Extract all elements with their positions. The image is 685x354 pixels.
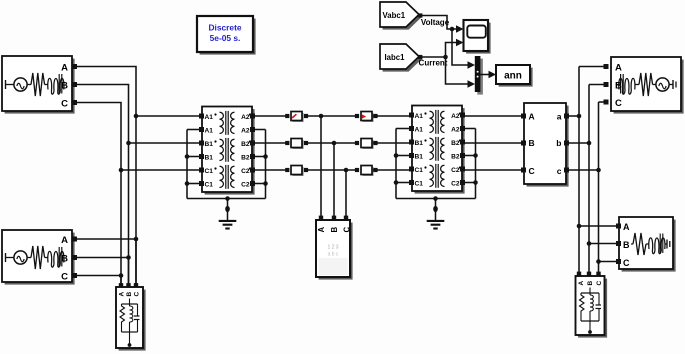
three-phase parallel RLC load 1 (bottom-left) <box>116 287 146 351</box>
wire: T1 bottom neutral to ground <box>187 198 266 200</box>
svg-text:C: C <box>615 98 622 109</box>
source2 port B <box>72 255 77 260</box>
svg-text:A2: A2 <box>241 114 250 121</box>
wire: Vabc1 to scope input 1 <box>418 13 456 29</box>
svg-text:C1: C1 <box>415 181 424 188</box>
svg-text:B1: B1 <box>415 154 424 161</box>
breaker C-2 <box>361 166 374 177</box>
junction: bus A / RLC load A <box>577 224 582 229</box>
wire: bus B to source3 B <box>589 84 608 86</box>
wire: T2 left bus (A1-B1-C1 common) <box>396 129 412 199</box>
junction: T1 left bus C1 <box>185 181 190 186</box>
wire: phase B vertical bus down to load1 <box>128 143 130 287</box>
svg-text:C: C <box>61 99 68 110</box>
svg-text:Discrete: Discrete <box>208 23 241 33</box>
junction: T2 left bus C1 <box>394 180 399 185</box>
wire: current to scope input 2 <box>446 43 457 58</box>
junction: fault tap phase A <box>319 114 324 119</box>
junction: T2 neutral/ground <box>433 196 438 201</box>
powergui block (Discrete 5e-05 s.) <box>197 16 256 55</box>
svg-text:C: C <box>529 166 535 176</box>
junction: phase C / source2 C <box>119 273 124 278</box>
junction: phase B / source2 B <box>126 255 131 260</box>
svg-text:a b c: a b c <box>328 252 339 258</box>
junction: phase C tap to T1 <box>119 168 124 173</box>
From tag Vabc1 <box>380 2 422 30</box>
transformer T1 left ports <box>199 114 204 187</box>
svg-text:ann: ann <box>504 70 522 81</box>
breaker A-2 red indicator <box>362 114 366 118</box>
svg-text:B2: B2 <box>451 140 460 147</box>
load1 top ports <box>119 283 138 287</box>
junction: bus A / meas a <box>577 114 582 119</box>
svg-text:B: B <box>126 292 133 297</box>
junction: phase A tap to T1 <box>134 114 139 119</box>
breaker B-2 ports <box>355 141 378 145</box>
junction: T1 right bus B2 <box>263 154 268 159</box>
wire: T2 B2 to measurement B <box>462 142 524 144</box>
svg-text:C2: C2 <box>451 181 460 188</box>
junction: T1 left bus B1 <box>185 154 190 159</box>
svg-text:B: B <box>61 81 68 92</box>
source3 port B <box>604 82 609 87</box>
svg-text:A: A <box>317 227 326 233</box>
svg-text:C: C <box>61 272 68 283</box>
wire: measurement a to right bus A <box>566 115 579 117</box>
wire: current branch to mux input 2 <box>446 57 469 84</box>
arrow into scope input 1 <box>456 25 464 33</box>
ground G1 (below T1) <box>219 199 237 229</box>
annotation block ann <box>496 65 533 87</box>
svg-text:C2: C2 <box>451 167 460 174</box>
transformer T2 (three-phase, two windings) <box>412 106 465 194</box>
wire: measurement b to right bus B <box>566 142 589 144</box>
source2 port A <box>72 237 77 242</box>
svg-text:A2: A2 <box>451 113 460 120</box>
arrow into ann <box>489 71 497 79</box>
source2 port C <box>72 273 77 278</box>
source1 port B <box>72 82 77 87</box>
breaker C-1 <box>291 166 304 177</box>
scope block <box>464 20 491 54</box>
svg-text:B1: B1 <box>415 140 424 147</box>
svg-text:C: C <box>343 227 352 233</box>
junction: phase B tap to T1 <box>126 141 131 146</box>
junction: phase A / source2 A <box>134 237 139 242</box>
wire: bus B to RLC load B <box>589 243 619 245</box>
source1 port A <box>72 64 77 69</box>
wire: fault tap A down <box>320 116 322 218</box>
junction: fault tap phase C <box>344 168 349 173</box>
svg-text:A2: A2 <box>241 128 250 135</box>
fault block top ports <box>319 216 348 220</box>
svg-text:Iabc1: Iabc1 <box>385 53 406 62</box>
label Voltage <box>421 18 450 27</box>
wire: phase A vertical bus down to load1 <box>135 116 137 287</box>
junction: T2 right bus C2 <box>473 180 478 185</box>
wire: voltage branch to mux input 1 <box>452 29 468 65</box>
wire: mux output to ann <box>480 74 489 76</box>
junction: fault tap phase B <box>332 141 337 146</box>
svg-text:B: B <box>623 240 630 250</box>
three-phase series RLC load block <box>619 217 676 272</box>
transformer T1 right ports <box>250 114 255 187</box>
junction: T2 right bus B2 <box>473 153 478 158</box>
breaker A-1 ports <box>285 114 308 118</box>
junction: current split <box>443 55 448 60</box>
svg-text:B1: B1 <box>205 155 214 162</box>
source3 port A <box>604 64 609 69</box>
wire: T1 right bus (A2-B2-C2 common) <box>252 130 266 199</box>
wire: Iabc1 lead <box>418 55 445 59</box>
wire: bus C to RLC load C <box>599 261 620 263</box>
svg-text:B: B <box>587 281 594 286</box>
svg-text:1 2 3: 1 2 3 <box>327 245 338 251</box>
junction: T1 neutral/ground <box>225 196 230 201</box>
wire: T2 right bus (A2-B2-C2 common) <box>462 129 476 199</box>
svg-text:Vabc1: Vabc1 <box>383 11 406 20</box>
svg-text:A: A <box>61 235 68 246</box>
breaker A-2 ports <box>355 114 378 118</box>
wire: bus A to RLC load A <box>579 225 619 227</box>
wire: source1 C to T1 C1 and down <box>77 103 121 171</box>
three-phase V-I measurement block <box>524 103 569 187</box>
svg-text:B2: B2 <box>241 141 250 148</box>
junction: T2 left bus B1 <box>394 153 399 158</box>
svg-text:B: B <box>61 254 68 265</box>
arrow into scope input 2 <box>456 39 464 47</box>
source3 port C <box>604 100 609 105</box>
breaker B-2 <box>361 139 374 150</box>
wire: phase bus stubs into load1 <box>121 239 136 288</box>
svg-text:C: C <box>596 281 603 286</box>
svg-text:C: C <box>133 292 140 297</box>
wire: T1 C2 to breaker C-1 <box>252 169 289 171</box>
junction: bus B / meas b <box>587 141 592 146</box>
svg-text:A1: A1 <box>415 113 424 120</box>
wire: breaker A-2 to T2 <box>373 115 412 117</box>
wire: fault tap B down <box>333 143 335 218</box>
label Current <box>419 59 448 68</box>
svg-text:B: B <box>529 138 535 148</box>
arrow into mux input 1 <box>468 61 476 69</box>
svg-text:A1: A1 <box>205 128 214 135</box>
svg-text:Voltage: Voltage <box>421 18 450 27</box>
breaker A-1 red switch arm <box>292 114 296 118</box>
wire: right bus phase B vertical <box>588 85 590 277</box>
wire: breaker C-1 to breaker C-2 <box>304 169 359 171</box>
svg-text:C2: C2 <box>241 168 250 175</box>
breaker B-1 ports <box>285 141 308 145</box>
ground G2 (below T2) <box>427 199 445 229</box>
svg-text:A1: A1 <box>415 127 424 134</box>
three-phase source 2 (bottom-left) <box>2 230 75 285</box>
svg-text:b: b <box>556 138 561 148</box>
wire: breaker C-2 to T2 <box>373 169 412 171</box>
svg-text:C: C <box>623 258 630 268</box>
svg-text:C1: C1 <box>205 182 214 189</box>
arrow into mux input 2 <box>468 80 476 88</box>
wire: breaker B-2 to T2 <box>373 142 412 144</box>
three-phase source 3 (top-right) <box>611 57 684 114</box>
transformer T2 left ports <box>409 113 414 186</box>
transformer T2 right ports <box>460 113 465 186</box>
wire: phase B into T1 B1 <box>129 142 203 144</box>
junction: bus C / RLC load C <box>596 259 601 264</box>
wire: right bus phase A vertical <box>578 67 580 277</box>
junction: bus B / RLC load B <box>587 241 592 246</box>
wire: source1 B to T1 B1 and down <box>77 85 129 144</box>
svg-text:C1: C1 <box>205 168 214 175</box>
wire: phase C into T1 C1 <box>121 169 202 171</box>
wire: breaker A-1 to breaker A-2 <box>304 115 359 117</box>
svg-text:C1: C1 <box>415 167 424 174</box>
junction: bus C / meas c <box>596 168 601 173</box>
mux block <box>475 56 483 95</box>
load2 top ports <box>577 272 601 276</box>
svg-text:A: A <box>61 63 68 74</box>
junction: T1 right bus C2 <box>263 181 268 186</box>
svg-text:B: B <box>330 227 339 233</box>
wire: source2 A to phase A bus <box>77 238 136 240</box>
three-phase parallel RLC load 2 (bottom-right) <box>576 276 608 338</box>
wire: phase A into T1 A1 <box>136 115 202 117</box>
wire: T2 A2 to measurement A <box>462 115 524 117</box>
transformer T1 (three-phase, two windings) <box>202 107 255 195</box>
wire: bus C to source3 C <box>599 101 609 103</box>
svg-text:A1: A1 <box>205 114 214 121</box>
svg-text:B2: B2 <box>451 154 460 161</box>
breaker C-2 ports <box>355 168 378 172</box>
svg-text:A: A <box>529 112 535 122</box>
breaker A-1 <box>291 112 304 123</box>
junction: voltage to mux branch <box>450 27 455 32</box>
wire: source2 B to phase B bus <box>77 257 129 259</box>
svg-text:5e-05 s.: 5e-05 s. <box>210 33 241 43</box>
svg-text:c: c <box>557 166 562 176</box>
wire: right bus phase C vertical <box>598 102 600 276</box>
svg-text:B: B <box>615 81 622 92</box>
svg-text:A: A <box>118 292 125 297</box>
svg-text:A: A <box>578 281 585 286</box>
RLC load left ports <box>616 224 621 265</box>
wire: phase C vertical bus down to load1 <box>120 170 122 287</box>
measurement left ports <box>521 114 526 173</box>
svg-text:A: A <box>623 222 630 232</box>
svg-text:Current: Current <box>419 59 448 68</box>
breaker C-1 ports <box>285 168 308 172</box>
svg-text:B1: B1 <box>205 141 214 148</box>
wire: source1 A to T1 A1 and down to source2/load bus <box>77 67 136 117</box>
source1 port C <box>72 100 77 105</box>
wire: fault tap C down <box>345 170 347 218</box>
three-phase source 1 (top-left) <box>2 56 75 114</box>
wire: source2 C to phase C bus <box>77 275 121 277</box>
wire: measurement c to right bus C <box>566 169 599 171</box>
svg-text:A2: A2 <box>451 127 460 134</box>
three-phase fault block <box>316 220 353 280</box>
measurement right ports <box>564 114 569 173</box>
svg-text:C2: C2 <box>241 182 250 189</box>
wire: T1 left bus (A1-B1-C1 common) <box>187 130 202 199</box>
wire: T2 C2 to measurement C <box>462 169 524 171</box>
svg-text:a: a <box>557 112 562 122</box>
wire: bus A to source3 A <box>579 66 608 68</box>
svg-text:A: A <box>615 63 622 74</box>
From tag Iabc1 <box>380 44 422 72</box>
wire: T1 B2 to breaker B-1 <box>252 142 289 144</box>
wire: T1 A2 to breaker A-1 <box>252 115 289 117</box>
breaker B-1 <box>291 139 304 150</box>
wire: T2 bottom neutral to ground <box>396 198 476 200</box>
svg-text:B2: B2 <box>241 155 250 162</box>
wire: breaker B-1 to breaker B-2 <box>304 142 359 144</box>
breaker A-2 <box>361 112 374 123</box>
